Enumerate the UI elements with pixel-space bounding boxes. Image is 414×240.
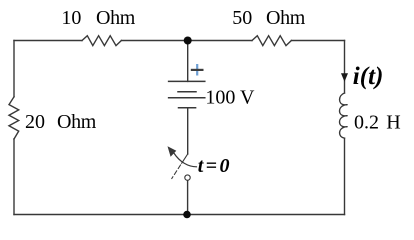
- wire left vertical upper: [13, 41, 15, 97]
- wire right vertical lower: [344, 138, 346, 214]
- resistor R3 (20 Ohm) vertical: [9, 97, 19, 139]
- svg-text:10: 10: [61, 7, 81, 29]
- node junction dot bottom: [183, 211, 191, 219]
- wire bottom horizontal: [14, 214, 345, 216]
- switch S1 contact circle: [185, 175, 190, 180]
- battery V1 plate long top: [169, 80, 205, 82]
- switch S1 blade solid upper part: [182, 154, 188, 163]
- switch S1 blade dashed lower part: [172, 165, 181, 179]
- battery V1 plate short bottom: [179, 107, 196, 109]
- wire right vertical upper: [344, 41, 346, 94]
- wire top-middle (R1 to R2): [121, 40, 252, 42]
- svg-text:i(t): i(t): [353, 63, 384, 90]
- svg-text:20: 20: [25, 111, 45, 133]
- wire switch to bottom node: [187, 181, 189, 215]
- svg-text:0.2: 0.2: [354, 111, 379, 133]
- svg-text:100 V: 100 V: [205, 87, 255, 109]
- wire left vertical lower: [13, 139, 15, 215]
- svg-text:Ohm: Ohm: [266, 7, 306, 29]
- inductor L1 (0.2 H) coil: [340, 93, 348, 138]
- wire battery to switch: [187, 108, 189, 154]
- svg-text:t=0: t=0: [198, 155, 232, 177]
- battery plus sign: [191, 64, 204, 76]
- switch S1 arrowhead: [168, 146, 177, 157]
- svg-text:Ohm: Ohm: [96, 7, 136, 29]
- wire middle from top node to battery: [187, 41, 189, 82]
- svg-text:50: 50: [232, 7, 252, 29]
- svg-text:H: H: [386, 111, 400, 133]
- node junction dot top: [184, 37, 192, 45]
- resistor R1 (10 Ohm): [82, 36, 121, 46]
- current arrow i(t) on right wire: [341, 73, 348, 82]
- resistor R2 (50 Ohm): [252, 36, 291, 46]
- svg-text:Ohm: Ohm: [57, 111, 97, 133]
- battery V1 plate long lower: [169, 97, 205, 99]
- wire top-left horizontal: [14, 40, 82, 42]
- battery V1 plate short: [178, 91, 196, 93]
- switch S1 motion arc: [174, 153, 197, 167]
- wire top-right horizontal: [291, 40, 344, 42]
